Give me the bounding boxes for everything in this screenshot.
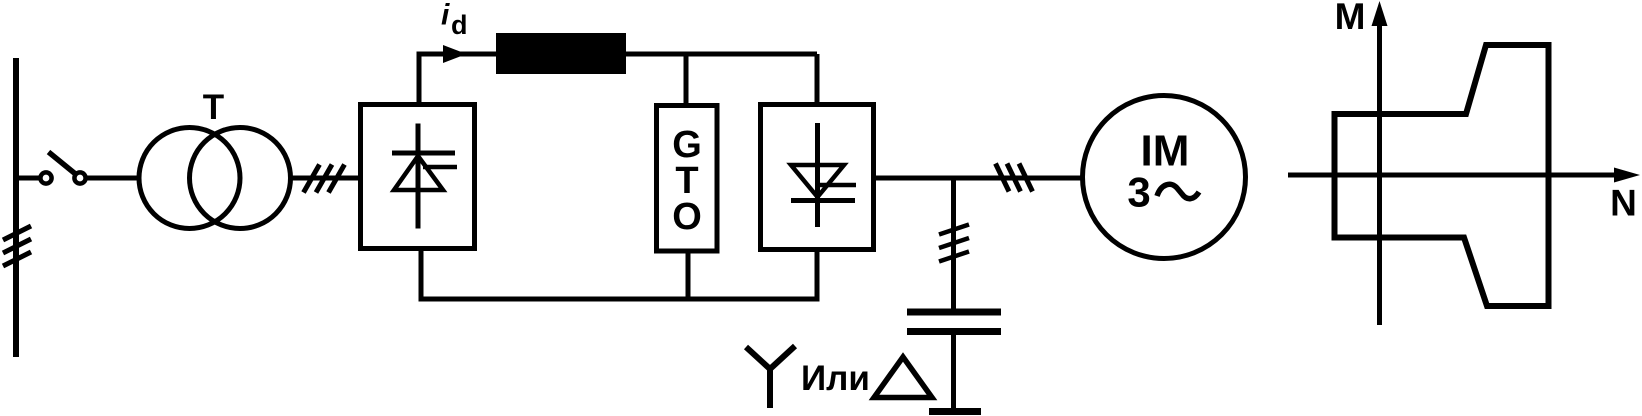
capacitor bottom lead — [951, 335, 956, 411]
svg-text:3: 3 — [1127, 169, 1150, 216]
wire inverter to motor — [875, 176, 1084, 181]
supply bus — [13, 58, 19, 357]
dc-link current arrow — [443, 45, 467, 63]
svg-text:d: d — [451, 10, 468, 40]
smoothing reactor L (filled) — [496, 33, 626, 74]
dc-link bottom wire — [421, 251, 817, 299]
3-phase slashes on rectifier input — [304, 165, 345, 193]
svg-text:i: i — [441, 0, 450, 32]
star (wye) symbol — [746, 346, 795, 408]
svg-text:O: O — [672, 196, 702, 238]
inverter box U2 — [761, 105, 874, 250]
wire transformer to rectifier — [290, 176, 358, 181]
inverter bottom lead — [815, 252, 820, 299]
transformer T primary circle — [139, 128, 240, 229]
dc-link top wire — [419, 54, 817, 102]
GTO bottom lead — [686, 253, 691, 299]
inverter thyristor symbol — [791, 123, 856, 227]
3-phase slashes on capacitor branch — [939, 225, 969, 262]
motor IM circle — [1083, 96, 1246, 259]
rectifier box U1 — [361, 105, 475, 249]
3-phase slashes on motor wire — [996, 164, 1033, 192]
speed axis N (horizontal) — [1288, 173, 1616, 178]
torque-speed characteristic curve — [1335, 45, 1549, 306]
speed axis arrowhead — [1614, 168, 1640, 183]
transformer T secondary circle — [190, 128, 291, 229]
switch blade — [49, 152, 76, 174]
GTO top lead — [684, 54, 689, 103]
switch contact circle right — [74, 172, 85, 183]
capacitor bottom bar — [929, 408, 981, 415]
capacitor branch wire — [951, 178, 956, 309]
inverter top lead — [815, 54, 820, 102]
GTO box — [657, 106, 718, 252]
svg-text:Или: Или — [801, 359, 870, 398]
capacitor C top plate — [907, 309, 1001, 316]
wire switch to transformer — [87, 176, 139, 181]
motor tilde — [1157, 184, 1199, 198]
torque axis arrowhead — [1372, 1, 1388, 26]
GTO label — [672, 124, 702, 238]
svg-text:N: N — [1610, 183, 1637, 224]
torque axis M (vertical) — [1377, 24, 1382, 325]
svg-text:M: M — [1335, 0, 1366, 37]
switch contact circle left — [40, 172, 51, 183]
bus 3-phase slashes — [3, 226, 31, 266]
svg-text:T: T — [203, 88, 224, 127]
capacitor C bottom plate — [907, 328, 1001, 335]
delta symbol — [874, 357, 932, 398]
rectifier thyristor symbol — [392, 124, 457, 229]
wire bus to switch — [16, 176, 40, 181]
